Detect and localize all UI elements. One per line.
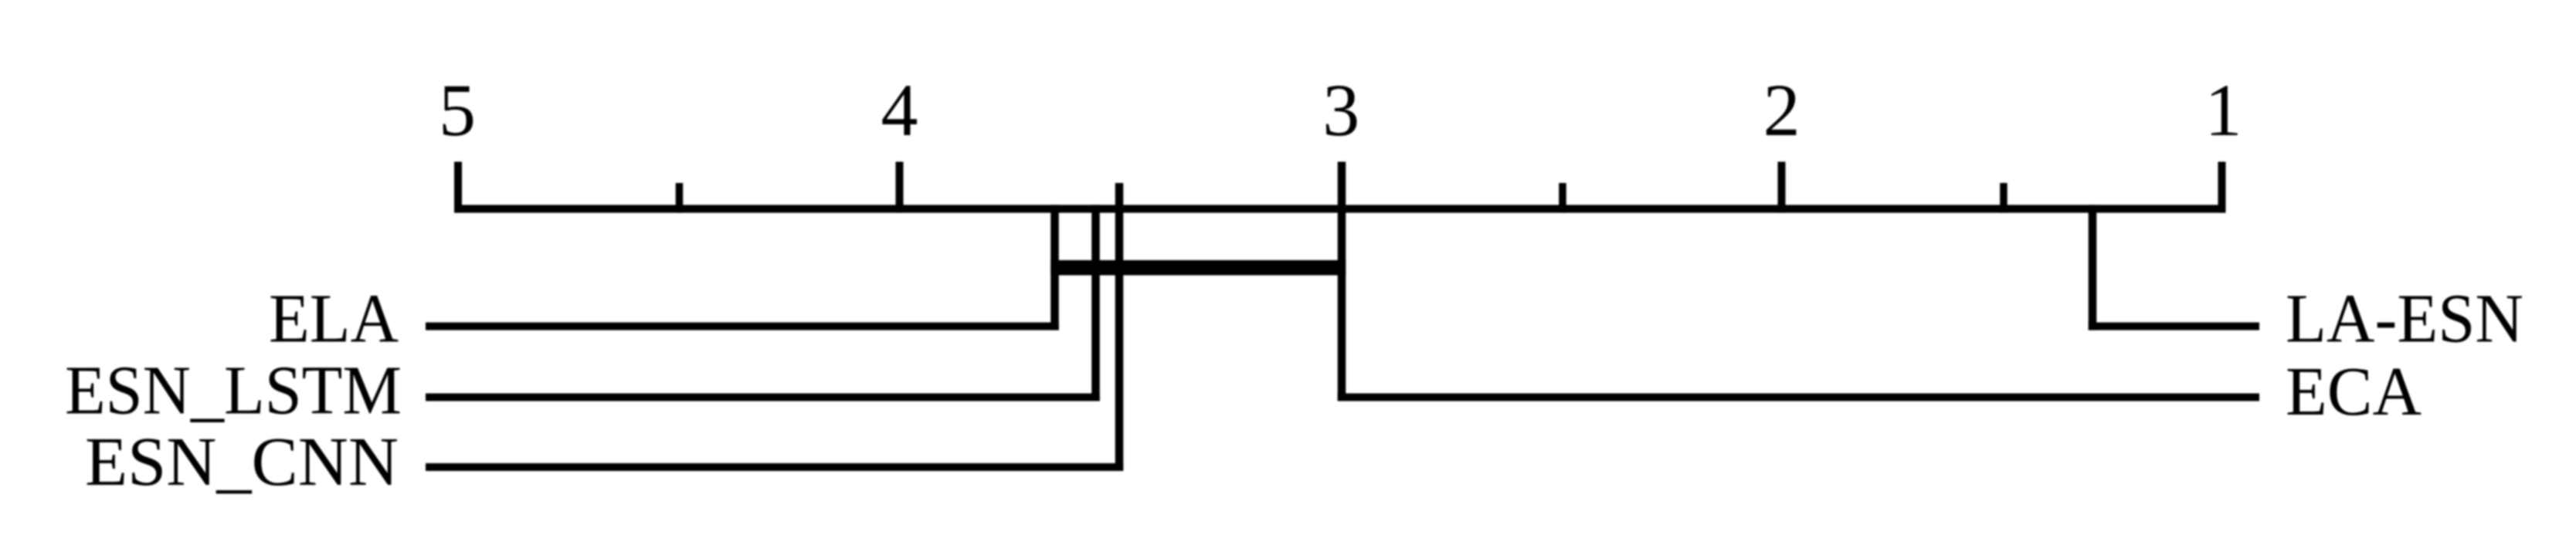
svg-text:ELA: ELA <box>269 280 399 357</box>
major tick 5 <box>454 162 462 213</box>
svg-text:LA-ESN: LA-ESN <box>2286 280 2523 357</box>
LA-ESN row line <box>2089 323 2259 330</box>
minor tick 4.5 <box>676 183 684 213</box>
minor tick 2.5 <box>1559 183 1566 213</box>
ECA drop line (includes major tick 3) <box>1338 162 1346 401</box>
ESN_CNN row line <box>426 463 1123 471</box>
LA-ESN drop line <box>2089 205 2097 330</box>
major tick 2 <box>1778 162 1786 213</box>
major tick 1 <box>2218 162 2226 213</box>
svg-text:3: 3 <box>1322 69 1359 151</box>
axis line <box>454 205 2226 212</box>
clique bar (thick) <box>1050 260 1346 276</box>
svg-text:ESN_CNN: ESN_CNN <box>85 424 399 500</box>
minor tick 1.5 <box>2000 183 2008 213</box>
ESN_LSTM row line <box>426 394 1100 401</box>
ELA row line <box>426 323 1059 330</box>
ESN_CNN drop line (includes minor tick 3.5) <box>1115 183 1124 471</box>
svg-text:ESN_LSTM: ESN_LSTM <box>65 353 402 429</box>
svg-text:2: 2 <box>1763 69 1800 151</box>
ESN_LSTM drop line <box>1091 205 1100 401</box>
svg-text:1: 1 <box>2205 69 2242 151</box>
svg-text:5: 5 <box>439 69 476 151</box>
svg-text:4: 4 <box>881 69 918 151</box>
ECA row line <box>1338 394 2259 401</box>
ELA drop line <box>1050 205 1059 330</box>
svg-text:ECA: ECA <box>2286 354 2422 430</box>
major tick 4 <box>896 162 904 213</box>
